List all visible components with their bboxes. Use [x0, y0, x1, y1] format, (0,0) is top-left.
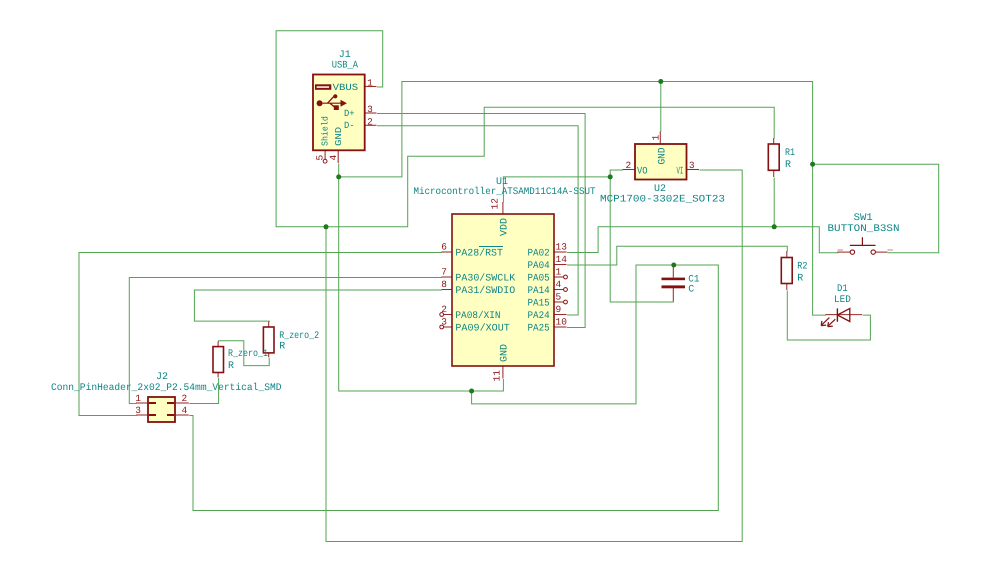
- svg-text:13: 13: [556, 242, 568, 253]
- svg-text:U2: U2: [654, 184, 666, 195]
- svg-text:R_zero_2: R_zero_2: [279, 331, 319, 342]
- svg-text:PA15: PA15: [528, 299, 550, 310]
- svg-text:C: C: [688, 284, 694, 295]
- svg-text:USB_A: USB_A: [332, 61, 358, 72]
- svg-text:PA24: PA24: [528, 311, 550, 322]
- svg-text:GND: GND: [334, 127, 344, 146]
- svg-text:PA08/XIN: PA08/XIN: [455, 310, 500, 322]
- svg-text:Conn_PinHeader_2x02_P2.54mm_Ve: Conn_PinHeader_2x02_P2.54mm_Vertical_SMD: [51, 382, 282, 394]
- svg-text:J1: J1: [339, 50, 351, 61]
- svg-text:12: 12: [489, 198, 500, 210]
- svg-text:PA25: PA25: [528, 324, 550, 335]
- svg-text:Shield: Shield: [320, 116, 330, 146]
- svg-text:3: 3: [367, 104, 373, 115]
- svg-text:3: 3: [689, 160, 695, 171]
- svg-text:MCP1700-3302E_SOT23: MCP1700-3302E_SOT23: [600, 195, 725, 206]
- svg-text:GND: GND: [657, 148, 668, 165]
- svg-text:VBUS: VBUS: [333, 82, 359, 93]
- svg-text:BUTTON_B3SN: BUTTON_B3SN: [828, 224, 900, 235]
- svg-text:R: R: [228, 361, 234, 372]
- svg-text:VI: VI: [677, 166, 684, 177]
- svg-text:SW1: SW1: [854, 213, 873, 224]
- svg-text:2: 2: [625, 160, 631, 171]
- svg-text:GND: GND: [500, 344, 511, 362]
- svg-text:LED: LED: [834, 295, 851, 306]
- svg-text:VO: VO: [637, 166, 648, 177]
- svg-text:PA09/XOUT: PA09/XOUT: [455, 323, 509, 335]
- svg-text:D-: D-: [344, 120, 355, 131]
- svg-text:4: 4: [556, 279, 562, 290]
- svg-text:1: 1: [367, 78, 373, 89]
- svg-text:11: 11: [492, 370, 503, 382]
- svg-text:R_zero_1: R_zero_1: [228, 349, 268, 360]
- svg-text:PA04: PA04: [528, 261, 550, 272]
- svg-text:D1: D1: [837, 284, 848, 295]
- svg-text:PA28/RST: PA28/RST: [455, 248, 503, 260]
- svg-text:J2: J2: [156, 372, 168, 383]
- svg-text:1: 1: [135, 393, 141, 404]
- svg-text:PA14: PA14: [528, 286, 550, 297]
- svg-text:R: R: [797, 274, 803, 285]
- svg-text:10: 10: [556, 317, 568, 328]
- svg-text:14: 14: [556, 254, 568, 265]
- svg-text:3: 3: [441, 317, 447, 328]
- svg-text:R2: R2: [797, 262, 807, 273]
- svg-text:D+: D+: [344, 108, 355, 119]
- svg-text:2: 2: [182, 393, 188, 404]
- svg-text:R: R: [279, 342, 285, 353]
- svg-text:PA30/SWCLK: PA30/SWCLK: [455, 273, 515, 285]
- svg-text:2: 2: [367, 116, 373, 127]
- svg-text:PA31/SWDIO: PA31/SWDIO: [455, 285, 515, 297]
- svg-text:1: 1: [650, 135, 661, 141]
- svg-text:1: 1: [556, 267, 562, 278]
- svg-text:2: 2: [441, 304, 447, 315]
- svg-text:4: 4: [328, 155, 339, 161]
- svg-text:VDD: VDD: [500, 218, 511, 236]
- svg-text:Microcontroller_ATSAMD11C14A-S: Microcontroller_ATSAMD11C14A-SSUT: [414, 186, 596, 198]
- svg-text:5: 5: [556, 292, 562, 303]
- svg-text:R1: R1: [785, 148, 795, 159]
- svg-text:R: R: [785, 160, 791, 171]
- svg-text:PA02: PA02: [528, 249, 550, 260]
- svg-text:7: 7: [441, 267, 447, 278]
- svg-text:PA05: PA05: [528, 274, 550, 285]
- svg-text:4: 4: [182, 405, 188, 416]
- svg-text:9: 9: [556, 304, 562, 315]
- svg-text:8: 8: [441, 279, 447, 290]
- svg-text:5: 5: [315, 155, 326, 161]
- svg-text:3: 3: [135, 405, 141, 416]
- svg-text:6: 6: [441, 242, 447, 253]
